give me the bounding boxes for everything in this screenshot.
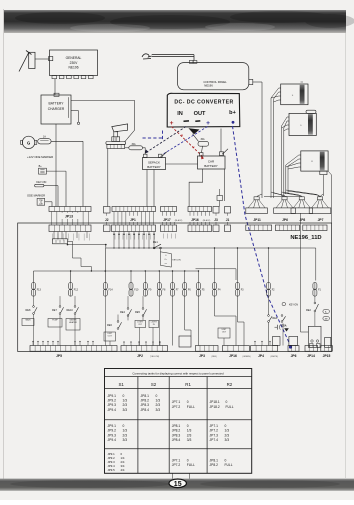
svg-text:(RED): (RED) <box>212 356 218 358</box>
svg-text:J2: J2 <box>105 218 109 222</box>
svg-text:+: + <box>206 120 210 127</box>
svg-text:J3: J3 <box>214 218 218 222</box>
svg-text:OSA: OSA <box>281 325 286 328</box>
svg-text:JP3: JP3 <box>199 354 205 358</box>
svg-text:1/3: 1/3 <box>225 429 230 433</box>
svg-text:JP16: JP16 <box>229 354 237 358</box>
svg-text:(WHITE): (WHITE) <box>271 356 279 358</box>
svg-text:SEPACK: SEPACK <box>148 161 160 165</box>
svg-text:G: G <box>27 140 30 145</box>
svg-text:RE10: RE10 <box>67 309 74 312</box>
svg-text:3/3: 3/3 <box>123 408 128 412</box>
svg-text:JP9.1: JP9.1 <box>108 424 117 428</box>
svg-text:JP7.4: JP7.4 <box>210 438 219 442</box>
svg-text:JP9.3: JP9.3 <box>108 433 117 437</box>
svg-text:KEY-ON: KEY-ON <box>289 303 298 306</box>
svg-text:JP7.2: JP7.2 <box>172 405 181 409</box>
svg-text:F12: F12 <box>74 288 79 291</box>
svg-text:CHARGER: CHARGER <box>48 107 65 111</box>
svg-text:(YELLOW): (YELLOW) <box>150 356 160 358</box>
svg-text:IN: IN <box>177 111 183 117</box>
svg-text:JP7.3: JP7.3 <box>210 433 219 437</box>
svg-text:JP11: JP11 <box>253 218 261 222</box>
svg-text:0: 0 <box>226 400 228 404</box>
svg-text:xxx: xxx <box>165 263 168 265</box>
svg-text:RE5: RE5 <box>135 311 140 314</box>
svg-text:RE2: RE2 <box>306 309 311 312</box>
svg-text:JP8.4: JP8.4 <box>141 408 150 412</box>
svg-text:JP6: JP6 <box>282 218 288 222</box>
svg-text:4/4: 4/4 <box>121 468 125 472</box>
svg-text:JP7.1: JP7.1 <box>172 459 181 463</box>
svg-text:JP6: JP6 <box>291 354 297 358</box>
svg-text:OUT: OUT <box>194 111 206 117</box>
svg-text:JP1: JP1 <box>130 218 136 222</box>
svg-text:PUMP: PUMP <box>52 320 58 322</box>
svg-text:30A: 30A <box>200 138 205 141</box>
svg-text:JP9.3: JP9.3 <box>108 403 117 407</box>
svg-text:B+: B+ <box>39 165 43 168</box>
svg-text:0: 0 <box>187 424 189 428</box>
svg-text:230V: 230V <box>70 61 79 65</box>
svg-text:2/3: 2/3 <box>123 403 128 407</box>
svg-text:KEY-ON: KEY-ON <box>36 180 46 184</box>
svg-text:0: 0 <box>123 424 125 428</box>
svg-text:BATTERY: BATTERY <box>147 165 161 169</box>
svg-text:JP8.1: JP8.1 <box>141 394 150 398</box>
svg-text:(GREEN): (GREEN) <box>243 356 251 358</box>
svg-text:FULL: FULL <box>187 405 195 409</box>
svg-text:RE3: RE3 <box>272 317 277 320</box>
svg-text:2/3: 2/3 <box>225 433 230 437</box>
svg-text:FULL: FULL <box>187 463 195 467</box>
svg-text:RE8: RE8 <box>26 309 31 312</box>
svg-text:JP9.2: JP9.2 <box>108 429 117 433</box>
svg-text:JP15: JP15 <box>323 354 331 358</box>
svg-text:0: 0 <box>123 394 125 398</box>
svg-text:3/3: 3/3 <box>156 408 161 412</box>
svg-text:JP8.4: JP8.4 <box>172 438 181 442</box>
svg-text:JP9.2: JP9.2 <box>108 398 117 402</box>
svg-text:JP9.5: JP9.5 <box>108 468 116 472</box>
svg-text:b+: b+ <box>229 110 236 116</box>
svg-text:JP7.1: JP7.1 <box>210 424 219 428</box>
svg-text:JP8.2: JP8.2 <box>172 429 181 433</box>
svg-text:0: 0 <box>225 424 227 428</box>
svg-text:FULL: FULL <box>225 463 233 467</box>
svg-text:JP7.2: JP7.2 <box>210 429 219 433</box>
svg-text:JP17: JP17 <box>163 218 171 222</box>
svg-text:RE4: RE4 <box>120 311 125 314</box>
svg-text:+12V ODE MARKER: +12V ODE MARKER <box>27 155 53 159</box>
svg-text:2/3: 2/3 <box>187 433 192 437</box>
svg-text:JP4: JP4 <box>258 354 264 358</box>
svg-text:JP9.1: JP9.1 <box>108 394 117 398</box>
svg-text:JP7.1: JP7.1 <box>172 400 181 404</box>
svg-text:JP9.4: JP9.4 <box>108 438 117 442</box>
svg-text:RE6: RE6 <box>107 324 112 327</box>
svg-text:JP14: JP14 <box>307 354 315 358</box>
svg-text:0: 0 <box>187 459 189 463</box>
svg-text:3/3: 3/3 <box>225 438 230 442</box>
svg-text:JP7.2: JP7.2 <box>172 463 181 467</box>
svg-text:RE7: RE7 <box>52 309 57 312</box>
svg-text:1/3: 1/3 <box>123 398 128 402</box>
svg-text:(BLACK): (BLACK) <box>203 219 211 222</box>
svg-text:RE1: RE1 <box>153 241 158 244</box>
svg-text:JP2: JP2 <box>137 354 143 358</box>
svg-text:FULL: FULL <box>226 405 234 409</box>
svg-text:15: 15 <box>174 481 182 488</box>
svg-text:NE196_11D: NE196_11D <box>290 235 321 241</box>
svg-text:DC- DC CONVERTER: DC- DC CONVERTER <box>174 100 233 106</box>
svg-text:3/3: 3/3 <box>187 438 192 442</box>
svg-text:AM: AM <box>325 317 328 320</box>
svg-text:JP9.4: JP9.4 <box>108 408 117 412</box>
svg-text:JP5: JP5 <box>56 354 62 358</box>
svg-text:F14: F14 <box>109 288 114 291</box>
svg-text:JP7: JP7 <box>318 218 324 222</box>
svg-text:GENERAL: GENERAL <box>66 56 82 60</box>
svg-text:JP8.2: JP8.2 <box>141 398 150 402</box>
svg-text:BATTERY: BATTERY <box>204 164 218 168</box>
svg-text:KEY-ON: KEY-ON <box>172 260 181 262</box>
svg-text:JP8.1: JP8.1 <box>210 459 219 463</box>
svg-text:JP8.2: JP8.2 <box>210 463 219 467</box>
svg-text:JP16: JP16 <box>191 218 199 222</box>
svg-text:JP8.3: JP8.3 <box>172 433 181 437</box>
svg-text:1/3: 1/3 <box>156 398 161 402</box>
svg-text:JP13: JP13 <box>65 214 73 218</box>
svg-text:|||||: ||||| <box>300 82 303 84</box>
svg-text:1A: 1A <box>43 136 46 139</box>
svg-text:0: 0 <box>187 400 189 404</box>
svg-text:HEATER: HEATER <box>69 321 78 324</box>
svg-text:R2: R2 <box>227 382 233 387</box>
svg-text:R1: R1 <box>185 382 191 387</box>
svg-text:S2: S2 <box>151 382 157 387</box>
svg-text:F10: F10 <box>134 288 139 291</box>
svg-text:1/3: 1/3 <box>123 429 128 433</box>
svg-text:(BLACK): (BLACK) <box>175 219 183 222</box>
svg-text:+: + <box>170 120 174 127</box>
svg-text:F13: F13 <box>37 288 42 291</box>
svg-text:×: × <box>181 134 183 138</box>
svg-text:3/3: 3/3 <box>123 438 128 442</box>
svg-text:Connecting tanks for displayin: Connecting tanks for displaying correct … <box>132 371 224 375</box>
svg-text:0: 0 <box>156 394 158 398</box>
svg-text:NE196: NE196 <box>204 84 213 88</box>
svg-text:2/3: 2/3 <box>123 433 128 437</box>
svg-text:30A: 30A <box>131 143 136 146</box>
svg-text:JP18.1: JP18.1 <box>210 400 220 404</box>
svg-text:S1: S1 <box>119 382 125 387</box>
svg-text:JP8.1: JP8.1 <box>172 424 181 428</box>
svg-text:2/3: 2/3 <box>156 403 161 407</box>
svg-text:ODE MARKER: ODE MARKER <box>27 194 45 198</box>
svg-text:CAR: CAR <box>208 160 215 164</box>
svg-text:JP8.3: JP8.3 <box>141 403 150 407</box>
svg-text:BATTERY: BATTERY <box>49 102 65 106</box>
svg-text:1/3: 1/3 <box>187 429 192 433</box>
svg-text:NE196: NE196 <box>68 66 78 70</box>
svg-text:JP18.2: JP18.2 <box>210 405 220 409</box>
svg-text:MAIN: MAIN <box>26 319 32 322</box>
svg-text:J1: J1 <box>226 218 230 222</box>
svg-text:0: 0 <box>225 459 227 463</box>
svg-text:×: × <box>192 146 194 150</box>
